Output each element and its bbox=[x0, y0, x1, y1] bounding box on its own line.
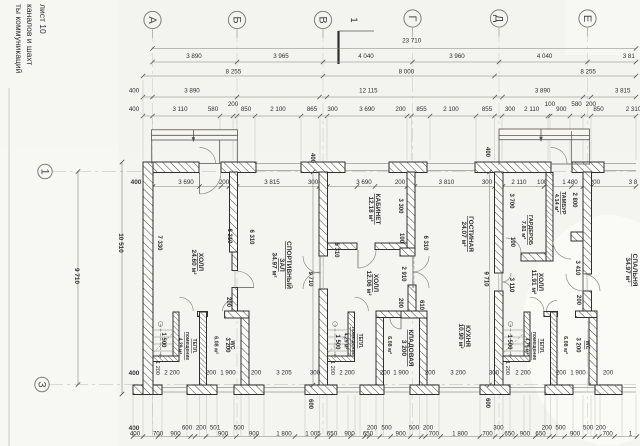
svg-text:650: 650 bbox=[327, 431, 338, 438]
svg-text:650: 650 bbox=[504, 431, 515, 438]
svg-text:4 040: 4 040 bbox=[537, 53, 553, 60]
dim row 400 3890 12115 3800 3815 bbox=[143, 96, 636, 98]
stair module1 bbox=[153, 322, 173, 358]
door arc on porch module3 bbox=[551, 148, 567, 164]
dim row 8255 8000 8255 bbox=[143, 75, 636, 77]
svg-text:6 310: 6 310 bbox=[248, 229, 254, 245]
wall under tambour right bbox=[571, 232, 583, 241]
svg-text:900: 900 bbox=[520, 431, 531, 438]
svg-text:3 815: 3 815 bbox=[264, 179, 280, 186]
svg-text:2 910: 2 910 bbox=[400, 266, 406, 282]
svg-text:6.08 м²: 6.08 м² bbox=[386, 336, 392, 354]
svg-text:34.97 м²: 34.97 м² bbox=[271, 252, 278, 278]
bottom wall pier B2 bbox=[187, 385, 217, 395]
svg-text:200: 200 bbox=[206, 370, 217, 377]
svg-text:700: 700 bbox=[482, 431, 493, 438]
svg-text:200: 200 bbox=[596, 425, 607, 432]
interior wall axis B upper bbox=[230, 172, 238, 252]
interior wall module2 right of kladovaya bbox=[420, 318, 428, 385]
svg-text:200: 200 bbox=[423, 425, 434, 432]
svg-text:200: 200 bbox=[603, 370, 614, 377]
svg-text:580: 580 bbox=[208, 106, 219, 113]
svg-text:Б: Б bbox=[230, 16, 242, 23]
svg-text:А: А bbox=[146, 16, 158, 24]
svg-text:помещение: помещение bbox=[531, 332, 537, 361]
svg-text:12 115: 12 115 bbox=[359, 88, 378, 95]
svg-text:100: 100 bbox=[398, 233, 404, 244]
wall axis E upper bbox=[583, 172, 592, 274]
svg-text:10.90 м²: 10.90 м² bbox=[457, 323, 464, 349]
svg-text:ХОЛЛ: ХОЛЛ bbox=[197, 253, 204, 272]
svg-text:2 110: 2 110 bbox=[511, 179, 527, 186]
door opening centerlines bbox=[235, 256, 587, 291]
svg-text:3 200: 3 200 bbox=[575, 337, 581, 353]
svg-text:3 890: 3 890 bbox=[184, 88, 200, 95]
svg-text:580: 580 bbox=[571, 101, 582, 108]
svg-text:300: 300 bbox=[308, 179, 319, 186]
svg-text:400: 400 bbox=[129, 88, 140, 95]
svg-text:1 200: 1 200 bbox=[329, 361, 335, 375]
partition stair module1 horizontal bbox=[153, 356, 179, 362]
svg-text:600: 600 bbox=[484, 398, 490, 409]
svg-text:3 690: 3 690 bbox=[356, 179, 372, 186]
svg-text:12.06 м²: 12.06 м² bbox=[365, 270, 372, 296]
bottom wall pier B5 bbox=[360, 385, 384, 395]
room label kladovaya module2 bbox=[400, 330, 414, 367]
svg-text:650: 650 bbox=[363, 431, 374, 438]
svg-text:900: 900 bbox=[344, 431, 355, 438]
svg-text:300: 300 bbox=[310, 370, 321, 377]
svg-text:WC: WC bbox=[584, 341, 590, 350]
svg-text:400: 400 bbox=[130, 431, 141, 438]
bottom wall pier B6 bbox=[410, 385, 439, 395]
top wall pier A4 bbox=[389, 162, 427, 173]
svg-text:ТЕПЛ.: ТЕПЛ. bbox=[191, 339, 197, 354]
svg-text:700: 700 bbox=[429, 431, 440, 438]
door leaf a bedroom module3 bbox=[566, 274, 583, 291]
axis bubble 3 left bbox=[35, 377, 49, 391]
room label tepl module3 bbox=[524, 332, 544, 361]
bottom wall pier B3 bbox=[234, 385, 264, 395]
left vertical dim 10 510 bbox=[121, 162, 123, 394]
svg-text:700: 700 bbox=[603, 431, 614, 438]
axis bubble 1 left bbox=[38, 164, 52, 178]
door WC module1 bbox=[223, 301, 234, 312]
interior wall module2 left of kladovaya bbox=[376, 311, 384, 385]
svg-text:3: 3 bbox=[36, 381, 48, 387]
svg-text:1 900: 1 900 bbox=[570, 370, 586, 377]
axis bubble Б bbox=[228, 11, 245, 38]
room label hall module2 bbox=[365, 270, 379, 296]
room label area WC module3 bbox=[562, 336, 568, 354]
svg-text:10 510: 10 510 bbox=[117, 233, 124, 253]
svg-text:900: 900 bbox=[570, 431, 581, 438]
dim row below top wall bbox=[153, 186, 636, 188]
svg-text:500: 500 bbox=[409, 425, 420, 432]
svg-text:855: 855 bbox=[416, 106, 427, 113]
svg-text:6 310: 6 310 bbox=[226, 228, 232, 244]
room label gym module1 bbox=[271, 241, 294, 289]
dim row overall 23 710 bbox=[153, 48, 637, 50]
svg-text:7 330: 7 330 bbox=[156, 235, 162, 251]
svg-text:400: 400 bbox=[131, 179, 142, 186]
svg-text:600: 600 bbox=[182, 425, 193, 432]
stair module3 bbox=[503, 322, 524, 358]
party wall axis D upper bbox=[495, 172, 504, 273]
svg-text:1 005: 1 005 bbox=[305, 431, 321, 438]
svg-text:6.08 м²: 6.08 м² bbox=[213, 336, 219, 354]
svg-text:3 410: 3 410 bbox=[574, 260, 580, 276]
svg-text:300: 300 bbox=[493, 425, 504, 432]
partition WC module1 bbox=[200, 312, 207, 385]
svg-text:В: В bbox=[316, 16, 328, 23]
bottom dim line bbox=[133, 436, 637, 438]
svg-text:1 480: 1 480 bbox=[562, 179, 578, 186]
svg-text:2 100: 2 100 bbox=[270, 106, 286, 113]
porch module1 steps bbox=[152, 130, 238, 164]
svg-text:ХОЛЛ: ХОЛЛ bbox=[372, 274, 379, 293]
svg-text:700: 700 bbox=[153, 431, 164, 438]
svg-text:КУХНЯ: КУХНЯ bbox=[464, 325, 471, 347]
room label WC module1 bbox=[229, 341, 235, 350]
svg-text:3 960: 3 960 bbox=[449, 53, 465, 60]
svg-text:12.18 м²: 12.18 м² bbox=[367, 196, 374, 222]
svg-text:1 800: 1 800 bbox=[452, 431, 468, 438]
wall axis E step cap bbox=[576, 311, 598, 318]
svg-text:2 800: 2 800 bbox=[571, 192, 577, 208]
svg-text:3 110: 3 110 bbox=[172, 106, 188, 113]
door tambour to hall bbox=[553, 241, 571, 259]
svg-text:ГАРДЕРОБ: ГАРДЕРОБ bbox=[527, 215, 533, 245]
door tepl module2 bbox=[355, 297, 369, 311]
bottom wall pier B4 bbox=[305, 385, 337, 395]
svg-text:200: 200 bbox=[575, 295, 581, 306]
door garderob bbox=[506, 238, 521, 253]
svg-text:24.07 м²: 24.07 м² bbox=[460, 221, 467, 247]
extension lines from top rows down to wall bbox=[143, 80, 636, 160]
partition stair module3 horizontal bbox=[503, 356, 530, 362]
top wall pier A3 bbox=[301, 162, 345, 173]
svg-text:200: 200 bbox=[397, 298, 403, 309]
svg-text:3 300: 3 300 bbox=[397, 198, 403, 214]
svg-text:900: 900 bbox=[170, 431, 181, 438]
room label tepl module1 bbox=[177, 332, 197, 361]
svg-text:2 310: 2 310 bbox=[626, 106, 640, 113]
svg-text:3 110: 3 110 bbox=[508, 278, 514, 293]
svg-text:23 710: 23 710 bbox=[402, 38, 421, 45]
section mark 1 top bbox=[339, 18, 375, 65]
svg-text:2 110: 2 110 bbox=[524, 106, 540, 113]
svg-text:200: 200 bbox=[380, 370, 391, 377]
svg-text:200: 200 bbox=[556, 370, 567, 377]
axis row line 1 bbox=[49, 172, 636, 385]
svg-text:4.29 м²: 4.29 м² bbox=[343, 333, 349, 350]
svg-text:9 710: 9 710 bbox=[73, 268, 80, 284]
svg-text:100: 100 bbox=[509, 237, 515, 248]
door leaf b bedroom module3 bbox=[583, 274, 600, 291]
svg-text:24.60 м²: 24.60 м² bbox=[190, 249, 197, 275]
svg-text:4.14 м²: 4.14 м² bbox=[553, 194, 560, 213]
vertical dim line 9710 module2 bbox=[489, 172, 491, 385]
door module1 entry bbox=[200, 173, 222, 195]
partition WC module3 top cap bbox=[544, 312, 558, 317]
wall axis E lower bbox=[589, 318, 597, 386]
svg-text:900: 900 bbox=[218, 431, 229, 438]
room label livingroom module2 bbox=[460, 216, 474, 252]
svg-text:200: 200 bbox=[225, 297, 231, 308]
svg-text:500: 500 bbox=[381, 425, 392, 432]
svg-text:7.81 м²: 7.81 м² bbox=[520, 221, 527, 240]
room label tepl module2 bbox=[343, 327, 363, 356]
svg-text:8 000: 8 000 bbox=[399, 69, 415, 76]
svg-text:865: 865 bbox=[307, 106, 318, 113]
partition WC module3 bbox=[551, 312, 558, 385]
interior wall module2 office bbox=[407, 172, 415, 256]
room label bedroom right bbox=[624, 254, 638, 287]
door leaf a kitchen module2 bbox=[413, 256, 429, 272]
interior wall module2 horiz right bbox=[401, 311, 427, 318]
top wall pier A5 bbox=[475, 162, 551, 173]
svg-text:3 890: 3 890 bbox=[186, 53, 202, 60]
svg-text:1 200: 1 200 bbox=[154, 361, 160, 375]
svg-text:34.97 м²: 34.97 м² bbox=[624, 257, 631, 283]
svg-text:900: 900 bbox=[396, 431, 407, 438]
svg-text:3 690: 3 690 bbox=[359, 106, 375, 113]
svg-text:850: 850 bbox=[593, 106, 604, 113]
svg-text:3 890: 3 890 bbox=[535, 88, 551, 95]
svg-text:200: 200 bbox=[251, 370, 262, 377]
partition garderob right bbox=[546, 173, 553, 262]
svg-text:400: 400 bbox=[129, 370, 140, 377]
svg-text:1: 1 bbox=[349, 18, 359, 23]
svg-text:ХОЛЛ: ХОЛЛ bbox=[537, 273, 544, 292]
svg-text:6.08 м²: 6.08 м² bbox=[562, 336, 568, 354]
top wall pier A6 bbox=[572, 162, 604, 173]
vertical dim line 9710 module1 bbox=[312, 172, 314, 385]
party wall axis V lower bbox=[319, 289, 328, 385]
svg-text:ТЕПЛ.: ТЕПЛ. bbox=[538, 339, 544, 354]
svg-text:3 200: 3 200 bbox=[450, 370, 466, 377]
svg-text:1: 1 bbox=[629, 431, 633, 438]
svg-text:Д: Д bbox=[492, 15, 504, 23]
svg-text:6 310: 6 310 bbox=[422, 235, 428, 251]
svg-text:Е: Е bbox=[581, 15, 593, 22]
room label hall module3 bbox=[530, 270, 544, 296]
partition stair module2 horizontal bbox=[328, 356, 355, 362]
svg-text:2 200: 2 200 bbox=[164, 370, 180, 377]
svg-text:3 8: 3 8 bbox=[629, 179, 638, 186]
door WC module3 bbox=[547, 301, 558, 312]
top wall pier A2 bbox=[221, 162, 256, 173]
svg-text:4.29 м²: 4.29 м² bbox=[177, 338, 183, 355]
door tepl module3 bbox=[530, 297, 544, 311]
bottom wall pier B1 bbox=[133, 385, 162, 395]
svg-text:8 255: 8 255 bbox=[580, 69, 596, 76]
svg-text:9 710: 9 710 bbox=[483, 271, 489, 287]
dim row axis spans bbox=[153, 61, 637, 63]
door leaf b in wall axis V bbox=[303, 272, 320, 289]
room label hall module1 bbox=[190, 249, 204, 275]
svg-text:ГОСТИНАЯ: ГОСТИНАЯ bbox=[467, 216, 474, 252]
axis bubble Г bbox=[404, 10, 421, 37]
svg-text:ты коммуникаций: ты коммуникаций bbox=[14, 4, 24, 74]
svg-text:3 810: 3 810 bbox=[439, 179, 455, 186]
svg-text:3 965: 3 965 bbox=[273, 53, 289, 60]
hall top wall module2 right bbox=[375, 243, 407, 250]
svg-text:200: 200 bbox=[228, 101, 239, 108]
svg-text:850: 850 bbox=[241, 106, 252, 113]
door leaf b kitchen module2 bbox=[413, 272, 429, 288]
svg-text:900: 900 bbox=[249, 431, 260, 438]
svg-text:200: 200 bbox=[196, 425, 207, 432]
svg-text:КЛАДОВАЯ: КЛАДОВАЯ bbox=[407, 330, 414, 367]
svg-text:8 255: 8 255 bbox=[226, 69, 242, 76]
left outer wall on axis A bbox=[143, 162, 153, 395]
svg-text:200: 200 bbox=[425, 370, 436, 377]
svg-text:2 200: 2 200 bbox=[515, 370, 531, 377]
partition stair module1 vertical bbox=[173, 312, 179, 361]
door tepl module1 bbox=[179, 297, 193, 311]
svg-text:ТЕПЛ.: ТЕПЛ. bbox=[357, 334, 363, 349]
sheet margin text column bbox=[14, 4, 48, 74]
window sill lines bottom wall openings bbox=[162, 388, 636, 393]
stair module2 bbox=[328, 322, 349, 358]
axis bubble Е bbox=[579, 10, 596, 37]
svg-text:4.79 м²: 4.79 м² bbox=[524, 338, 530, 355]
svg-text:900: 900 bbox=[556, 106, 567, 113]
axis bubble Д bbox=[490, 10, 507, 37]
window sill lines top wall openings bbox=[256, 164, 636, 171]
svg-text:400: 400 bbox=[129, 106, 140, 113]
svg-text:2 200: 2 200 bbox=[339, 370, 355, 377]
party wall axis V upper bbox=[319, 172, 328, 256]
room label office module2 bbox=[367, 193, 381, 224]
room label tambour module3 bbox=[553, 192, 566, 215]
axis bubble А bbox=[144, 11, 161, 38]
room label garderob module3 bbox=[520, 215, 533, 245]
partition WC module1 top cap bbox=[198, 312, 208, 317]
left vertical dim 9 710 bbox=[77, 172, 79, 385]
door hall to gym module1 bbox=[238, 287, 254, 289]
door arc on porch module1 bbox=[200, 148, 216, 164]
bottom wall pier B7 bbox=[480, 385, 510, 395]
svg-text:помещение: помещение bbox=[184, 332, 190, 361]
svg-text:600: 600 bbox=[307, 399, 313, 410]
top wall pier A1 bbox=[143, 162, 199, 173]
bottom extension lines bbox=[133, 395, 636, 437]
door hall module2 bbox=[358, 250, 376, 268]
interior wall module1 lower bbox=[241, 318, 249, 385]
interior wall module2 horiz left bbox=[376, 311, 401, 318]
svg-text:1 900: 1 900 bbox=[393, 370, 409, 377]
svg-text:200: 200 bbox=[542, 425, 553, 432]
svg-text:лист 10: лист 10 bbox=[38, 4, 48, 34]
svg-text:СПАЛЬНЯ: СПАЛЬНЯ bbox=[631, 254, 638, 287]
svg-text:400: 400 bbox=[484, 147, 490, 158]
svg-text:3 200: 3 200 bbox=[400, 340, 407, 357]
svg-text:500: 500 bbox=[234, 425, 245, 432]
door kladovaya module2 bbox=[390, 318, 401, 329]
svg-text:КАБИНЕТ: КАБИНЕТ bbox=[374, 193, 381, 224]
svg-text:1 500: 1 500 bbox=[334, 334, 340, 350]
door leaf a in wall axis D bbox=[502, 273, 511, 282]
axis bubble В bbox=[314, 11, 331, 38]
hall top wall module2 left bbox=[328, 243, 358, 250]
room label WC module3 bbox=[584, 341, 590, 350]
svg-text:1 800: 1 800 bbox=[276, 431, 292, 438]
left scan edge line bbox=[8, 88, 10, 446]
bottom wall pier B8 bbox=[545, 385, 573, 395]
dim row window piers detail bbox=[143, 115, 636, 117]
svg-text:1 500: 1 500 bbox=[160, 332, 166, 348]
door leaf b in wall axis D bbox=[502, 282, 511, 291]
svg-text:2 100: 2 100 bbox=[443, 106, 459, 113]
svg-text:4 040: 4 040 bbox=[358, 53, 374, 60]
svg-text:9 710: 9 710 bbox=[307, 271, 313, 287]
svg-text:ЗАЛ: ЗАЛ bbox=[278, 258, 285, 272]
svg-text:300: 300 bbox=[505, 106, 516, 113]
axis grid vertical dashed lines bbox=[153, 28, 588, 434]
wall under garderob bbox=[521, 253, 546, 261]
svg-text:3 700: 3 700 bbox=[508, 193, 514, 209]
interior wall step module1 bbox=[225, 311, 249, 318]
bottom dim numbers bbox=[130, 425, 633, 438]
porch module3 steps bbox=[499, 129, 590, 165]
svg-text:855: 855 bbox=[482, 106, 493, 113]
svg-text:610: 610 bbox=[418, 300, 424, 311]
svg-text:каналов и шахт: каналов и шахт bbox=[25, 4, 35, 66]
interior wall axis B narrow bbox=[232, 252, 238, 271]
dim row above bottom wall bbox=[154, 361, 614, 376]
svg-text:300: 300 bbox=[482, 179, 493, 186]
partition stair module2 vertical bbox=[348, 312, 355, 361]
interior wall module2 stub bbox=[408, 285, 416, 311]
svg-text:3 200: 3 200 bbox=[224, 337, 230, 353]
axis row line 3 bbox=[49, 384, 636, 386]
svg-text:200: 200 bbox=[367, 425, 378, 432]
svg-text:3 205: 3 205 bbox=[276, 370, 292, 377]
svg-text:500: 500 bbox=[555, 425, 566, 432]
svg-text:501: 501 bbox=[210, 425, 221, 432]
room label area WC module2 bbox=[386, 336, 392, 354]
svg-text:помещение: помещение bbox=[350, 327, 356, 356]
svg-text:200: 200 bbox=[219, 179, 230, 186]
svg-text:650: 650 bbox=[535, 431, 546, 438]
svg-text:3 815: 3 815 bbox=[615, 88, 631, 95]
svg-text:3 690: 3 690 bbox=[178, 179, 194, 186]
svg-text:400: 400 bbox=[309, 153, 315, 164]
svg-text:300: 300 bbox=[327, 106, 338, 113]
party wall axis D lower bbox=[495, 291, 504, 385]
svg-text:СПОРТИВНЫЙ: СПОРТИВНЫЙ bbox=[285, 241, 294, 289]
interior wall axis B below door bbox=[232, 288, 238, 312]
room label kitchen module2 bbox=[457, 323, 471, 349]
svg-text:1: 1 bbox=[39, 168, 51, 174]
bottom wall pier B9 bbox=[595, 385, 622, 395]
svg-text:100: 100 bbox=[545, 101, 556, 108]
svg-text:200: 200 bbox=[395, 179, 406, 186]
svg-text:500: 500 bbox=[583, 425, 594, 432]
svg-text:1 900: 1 900 bbox=[220, 370, 236, 377]
svg-text:3 81: 3 81 bbox=[623, 53, 636, 60]
partition stair module3 vertical bbox=[524, 312, 530, 361]
svg-text:200: 200 bbox=[395, 106, 406, 113]
wall axis E mid bbox=[583, 291, 592, 311]
svg-text:6 310: 6 310 bbox=[333, 242, 339, 258]
interior wall module2 office cap bbox=[400, 248, 415, 256]
svg-text:300: 300 bbox=[489, 370, 500, 377]
svg-text:1 500: 1 500 bbox=[506, 334, 512, 350]
